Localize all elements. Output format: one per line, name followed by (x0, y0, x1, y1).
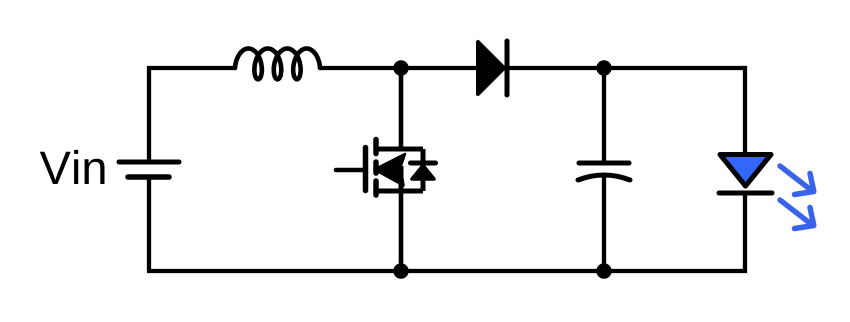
wire: capacitor branch upper (602, 68, 606, 163)
transistor Q1 gate bar (363, 148, 369, 191)
wire: top rail inductor to diode (320, 66, 477, 70)
LED light arrow 1 shaft (780, 166, 811, 190)
LED D2 triangle (720, 155, 771, 187)
LED D2 cathode bar (719, 191, 772, 196)
transistor Q1 source horizontal (376, 189, 423, 194)
transistor Q1 channel middle segment (373, 162, 379, 173)
wire: top rail diode to right corner (507, 66, 747, 70)
node D bottom-right junction (596, 263, 611, 278)
wire: left vertical upper (147, 66, 151, 162)
node B top-right junction (596, 60, 611, 75)
label Vin (40, 150, 105, 184)
wire: right vertical upper (743, 66, 747, 156)
wire: top rail left segment (147, 66, 235, 70)
LED light arrow 1 head (795, 174, 814, 195)
diode D1 cathode bar (505, 41, 510, 95)
wire: capacitor branch lower (602, 176, 606, 271)
transistor Q1 drain horizontal (376, 147, 423, 152)
node C bottom-left junction (393, 263, 408, 278)
wire: bottom rail (147, 269, 747, 273)
node A top-left junction (393, 60, 408, 75)
wire: right vertical lower (743, 193, 747, 273)
diode D1 triangle (478, 42, 504, 94)
transistor Q1 body diode cathode bar (411, 161, 436, 166)
transistor Q1 gate lead (336, 168, 363, 173)
transistor Q1 right vertical (421, 149, 426, 191)
battery V1 bottom plate (128, 174, 169, 180)
wire: MOSFET source to bottom rail (399, 191, 404, 271)
transistor Q1 body diode triangle (412, 166, 434, 180)
capacitor C1 curved plate (578, 175, 630, 180)
wire: MOSFET drain from node (399, 68, 404, 151)
transistor Q1 channel top segment (373, 140, 379, 154)
LED light arrow 2 head (795, 208, 814, 229)
transistor Q1 arrow (375, 154, 406, 186)
battery V1 top plate (119, 160, 179, 165)
wire: left vertical lower (147, 177, 151, 271)
capacitor C1 top plate (579, 161, 629, 166)
transistor Q1 channel bottom segment (373, 181, 379, 195)
inductor L1 (235, 49, 320, 80)
transistor Q1 arrow shaft (399, 166, 404, 191)
LED light arrow 2 shaft (780, 200, 811, 224)
